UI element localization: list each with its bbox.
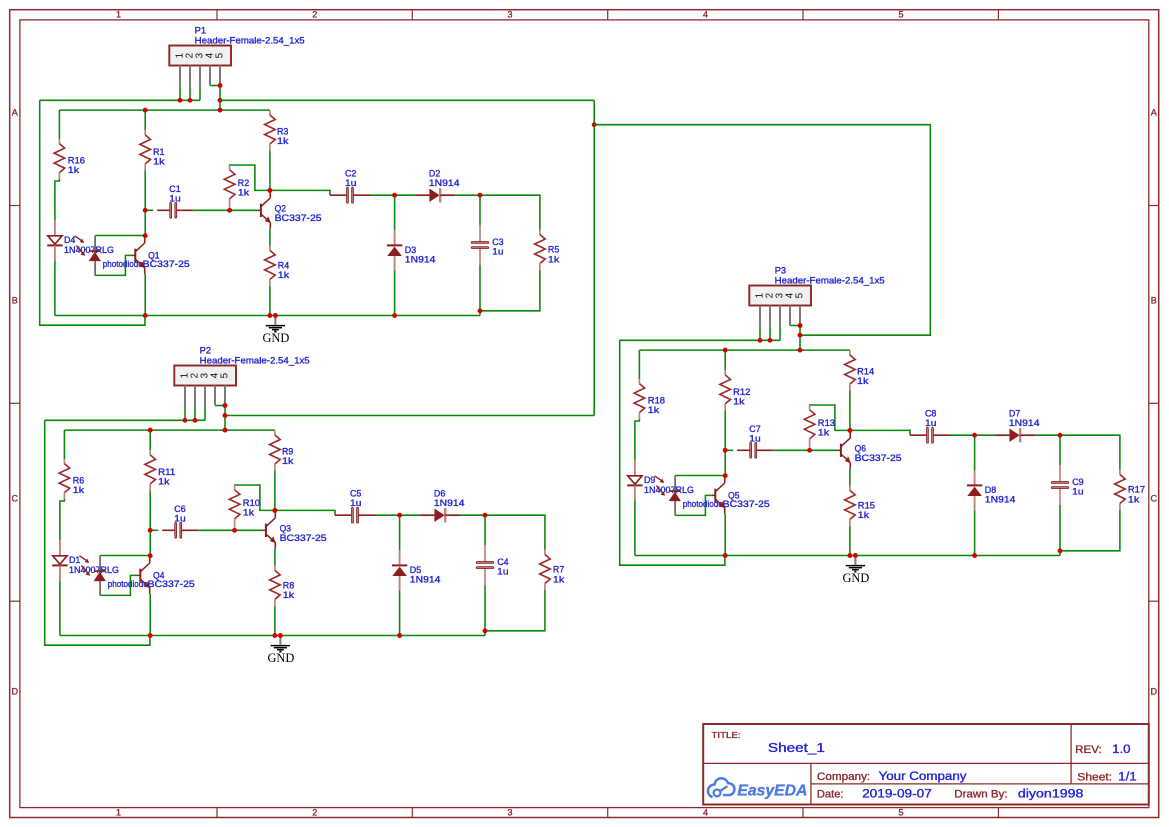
svg-text:C1: C1 xyxy=(169,184,180,194)
svg-text:R15: R15 xyxy=(858,500,875,510)
svg-text:1k: 1k xyxy=(68,165,80,175)
junction (145.2,210.3) xyxy=(143,208,148,213)
photodiode (opto receiver) xyxy=(80,556,106,596)
label R17 1k xyxy=(1128,485,1145,505)
wire: bus down left side xyxy=(593,100,595,415)
photodiode (opto receiver) xyxy=(75,236,101,276)
svg-text:1N4007RLG: 1N4007RLG xyxy=(69,565,119,575)
label D8 1N914 xyxy=(985,485,1016,504)
svg-text:R17: R17 xyxy=(1128,485,1145,495)
label Q4 BC337-25 xyxy=(148,571,195,589)
label Q5 BC337-25 xyxy=(723,491,770,509)
wire: C6 row xyxy=(150,529,262,531)
svg-text:D: D xyxy=(12,687,19,697)
wire: header P2 pins 1-3 to bus xyxy=(185,406,205,421)
svg-text:5: 5 xyxy=(898,808,903,818)
svg-text:R14: R14 xyxy=(857,367,874,377)
wire: net pins123 left/bottom loop xyxy=(45,420,150,645)
label photodiode xyxy=(108,579,148,589)
svg-text:1N4007RLG: 1N4007RLG xyxy=(64,245,114,255)
svg-text:TITLE:: TITLE: xyxy=(712,730,741,740)
wire: C1 row xyxy=(145,209,257,211)
wire: header P2 pin4 jumper xyxy=(215,405,225,407)
label C6 1u xyxy=(174,504,185,524)
wire: ground rail xyxy=(60,635,485,637)
svg-text:1k: 1k xyxy=(818,428,830,438)
junction (225,430.1) xyxy=(223,428,228,433)
title block xyxy=(703,724,1149,805)
wire: net pins123 top rail xyxy=(620,339,780,341)
label D5 1N914 xyxy=(410,565,441,584)
svg-text:BC337-25: BC337-25 xyxy=(275,213,322,223)
connector header P1 xyxy=(169,46,231,86)
label C7 1u xyxy=(749,424,760,444)
junction (274.9,510.4) xyxy=(272,508,277,513)
svg-text:1k: 1k xyxy=(648,405,660,415)
svg-text:1u: 1u xyxy=(492,247,503,257)
svg-text:Sheet_1: Sheet_1 xyxy=(768,740,825,755)
svg-text:1N914: 1N914 xyxy=(405,255,436,265)
svg-text:5: 5 xyxy=(215,52,226,58)
junction (225,405.5) xyxy=(223,403,228,408)
resistor R18 xyxy=(634,379,645,419)
label R1 1k xyxy=(153,147,165,167)
svg-text:Drawn By:: Drawn By: xyxy=(954,788,1007,800)
svg-text:C4: C4 xyxy=(497,557,508,567)
wire: bus to block3 pin5 xyxy=(594,125,930,336)
junction (150.2,555.7) xyxy=(148,553,153,558)
wire: C8 to D7 xyxy=(950,434,995,436)
svg-text:1: 1 xyxy=(116,10,121,20)
wire: header P3 pins 1-3 to bus xyxy=(760,326,780,341)
diode D8 xyxy=(967,470,982,510)
wire: R3 to collector xyxy=(269,150,271,190)
resistor R15 xyxy=(845,486,856,526)
wire: emitter to R15 xyxy=(849,469,851,556)
resistor R3 xyxy=(265,110,276,150)
junction (145.2,315.5) xyxy=(143,313,148,318)
svg-text:1k: 1k xyxy=(278,270,290,280)
label R11 1k xyxy=(158,467,175,487)
transistor Q1 xyxy=(132,236,146,274)
svg-text:2019-09-07: 2019-09-07 xyxy=(862,786,932,800)
ground symbol xyxy=(267,636,294,666)
capacitor C4 xyxy=(476,545,493,585)
wire: header P1 pins 1-3 to bus xyxy=(180,86,200,101)
label C4 1u xyxy=(497,557,508,577)
label P3 Header-Female-2.54_1x5 xyxy=(775,266,885,286)
svg-text:C9: C9 xyxy=(1072,477,1083,487)
svg-text:A: A xyxy=(1151,108,1157,118)
junction (485,630.8) xyxy=(483,628,488,633)
junction (974.6,435.2) xyxy=(972,433,977,438)
wire: R13 bend to collector xyxy=(810,405,850,450)
svg-text:1k: 1k xyxy=(282,456,294,466)
svg-text:BC337-25: BC337-25 xyxy=(723,499,770,509)
svg-text:Your Company: Your Company xyxy=(879,769,968,783)
label R7 1k xyxy=(553,565,565,585)
label C2 1u xyxy=(345,168,356,188)
wire: Q4 emitter drop xyxy=(149,594,151,636)
junction (809.6,450.3) xyxy=(807,448,812,453)
label R5 1k xyxy=(548,245,560,265)
svg-text:R13: R13 xyxy=(818,418,835,428)
junction (269.9,315.5) xyxy=(267,313,272,318)
svg-text:R2: R2 xyxy=(238,178,249,188)
capacitor C3 xyxy=(471,225,488,265)
wire: R10 bend to collector xyxy=(235,485,275,530)
junction (275.4,315.5) xyxy=(273,313,278,318)
svg-text:3: 3 xyxy=(507,808,512,818)
junction (185,420.3) xyxy=(183,418,188,423)
wire: R14 to collector xyxy=(849,390,851,430)
junction (849.9,555.5) xyxy=(847,553,852,558)
svg-text:BC337-25: BC337-25 xyxy=(148,579,195,589)
svg-text:C7: C7 xyxy=(749,424,760,434)
label R16 1k xyxy=(68,156,85,176)
svg-text:1k: 1k xyxy=(277,136,289,146)
label R3 1k xyxy=(277,127,289,147)
wire: bus to block2 pin5 xyxy=(225,415,594,417)
junction (485,515.2) xyxy=(483,513,488,518)
svg-text:1k: 1k xyxy=(1128,495,1140,505)
EasyEDA logo xyxy=(708,778,807,799)
wire: C9 column xyxy=(1059,435,1061,555)
diode D6 xyxy=(420,508,460,522)
svg-text:1u: 1u xyxy=(497,567,508,577)
resistor R7 xyxy=(540,550,551,590)
junction (480,195.2) xyxy=(478,193,483,198)
wire: block1 pin5 bus to right xyxy=(220,99,594,101)
svg-text:Header-Female-2.54_1x5: Header-Female-2.54_1x5 xyxy=(200,355,310,365)
svg-text:4: 4 xyxy=(703,808,708,818)
svg-text:GND: GND xyxy=(267,651,294,665)
svg-text:1u: 1u xyxy=(350,498,361,508)
junction (274.9,635.5) xyxy=(272,633,277,638)
capacitor C9 xyxy=(1051,465,1068,505)
svg-text:C2: C2 xyxy=(345,168,356,178)
wire: D3 column xyxy=(394,195,396,315)
wire: VCC rail (row2) xyxy=(59,109,270,111)
wire: R17 bottom branch xyxy=(1060,510,1120,551)
svg-text:D: D xyxy=(1150,687,1157,697)
svg-text:2: 2 xyxy=(312,808,317,818)
label R12 1k xyxy=(733,387,750,407)
junction (800,335.2) xyxy=(798,333,803,338)
svg-text:1: 1 xyxy=(116,808,121,818)
wire: Q1 emitter drop xyxy=(144,274,146,316)
wire: C7 row xyxy=(725,449,837,451)
junction (394.6,315.5) xyxy=(392,313,397,318)
junction (855.4,555.5) xyxy=(853,553,858,558)
resistor R17 xyxy=(1115,470,1126,510)
svg-text:2: 2 xyxy=(312,10,317,20)
junction (394.6,195.2) xyxy=(392,193,397,198)
svg-text:BC337-25: BC337-25 xyxy=(855,453,902,463)
wire: C3 column xyxy=(479,195,481,315)
svg-text:R3: R3 xyxy=(277,127,288,137)
svg-text:1N4007RLG: 1N4007RLG xyxy=(644,485,694,495)
junction (150.2,430.1) xyxy=(148,428,153,433)
diode D5 xyxy=(392,550,407,590)
svg-text:EasyEDA: EasyEDA xyxy=(737,782,807,799)
svg-text:4: 4 xyxy=(703,10,708,20)
svg-text:1k: 1k xyxy=(857,376,869,386)
wire: Q5 emitter drop xyxy=(724,514,726,556)
svg-text:1N914: 1N914 xyxy=(434,498,465,508)
svg-text:1N914: 1N914 xyxy=(985,495,1016,505)
wire: C4 column xyxy=(484,515,486,635)
label P2 Header-Female-2.54_1x5 xyxy=(200,346,310,366)
label C8 1u xyxy=(925,408,936,428)
label D4 1N4007RLG xyxy=(64,235,114,255)
svg-text:Q2: Q2 xyxy=(275,204,286,214)
svg-text:P2: P2 xyxy=(200,346,211,356)
svg-text:R1: R1 xyxy=(153,147,164,157)
wire: ground rail xyxy=(635,555,1060,557)
svg-text:diyon1998: diyon1998 xyxy=(1018,786,1084,800)
svg-text:1u: 1u xyxy=(174,514,185,524)
svg-text:GND: GND xyxy=(262,331,289,345)
wire: net pins123 top rail xyxy=(45,419,205,421)
label D2 1N914 xyxy=(429,168,460,188)
svg-text:1k: 1k xyxy=(158,476,170,486)
wire: R2 bend to collector xyxy=(230,165,270,210)
svg-text:Q6: Q6 xyxy=(855,444,866,454)
svg-text:1k: 1k xyxy=(153,156,165,166)
wire: R6 branch xyxy=(60,430,65,635)
transistor Q2 xyxy=(257,190,271,228)
wire: VCC rail (row2) xyxy=(639,349,850,351)
transistor Q4 xyxy=(137,556,151,594)
label photodiode xyxy=(683,499,723,509)
svg-text:1u: 1u xyxy=(925,418,936,428)
junction (800,350.1) xyxy=(798,348,803,353)
wire: VCC rail (row2) xyxy=(64,429,275,431)
junction (190,100.3) xyxy=(188,98,193,103)
label Q1 BC337-25 xyxy=(143,251,190,269)
label R10 1k xyxy=(243,498,260,518)
svg-text:1k: 1k xyxy=(733,396,745,406)
svg-text:C5: C5 xyxy=(350,488,361,498)
label R18 1k xyxy=(648,396,665,416)
svg-text:A: A xyxy=(12,108,18,118)
svg-text:BC337-25: BC337-25 xyxy=(143,259,190,269)
svg-text:Company:: Company: xyxy=(817,771,870,783)
resistor R11 xyxy=(145,450,156,490)
resistor R2 xyxy=(224,165,235,205)
junction (399.6,635.5) xyxy=(397,633,402,638)
label C5 1u xyxy=(350,488,361,508)
svg-text:1N914: 1N914 xyxy=(1009,418,1040,428)
wire: header P1 pin5 drop xyxy=(219,86,221,111)
resistor R6 xyxy=(59,459,70,499)
transistor Q3 xyxy=(262,510,276,548)
wire: R18 branch xyxy=(635,350,640,555)
junction (229.6,210.3) xyxy=(227,208,232,213)
wire: photodiode links xyxy=(100,556,150,596)
svg-text:1/1: 1/1 xyxy=(1118,770,1137,784)
junction (725.2,475.7) xyxy=(723,473,728,478)
wire: collector row to C5 xyxy=(275,510,335,515)
wire: emitter to R4 xyxy=(269,229,271,316)
wire: header P3 pin5 drop xyxy=(799,326,801,351)
diode D9 xyxy=(627,460,642,500)
junction (195,420.3) xyxy=(193,418,198,423)
capacitor C8 xyxy=(910,427,950,443)
diode D4 xyxy=(47,220,62,260)
transistor Q5 xyxy=(712,476,726,514)
wire: R12 column xyxy=(724,350,726,476)
label Q2 BC337-25 xyxy=(275,204,322,224)
svg-text:R12: R12 xyxy=(733,387,750,397)
transistor Q6 xyxy=(837,430,851,468)
svg-text:C3: C3 xyxy=(492,237,503,247)
svg-text:P1: P1 xyxy=(195,26,206,36)
junction (220,100.3) xyxy=(218,98,223,103)
svg-text:C6: C6 xyxy=(174,504,185,514)
label C9 1u xyxy=(1072,477,1083,497)
label P1 Header-Female-2.54_1x5 xyxy=(195,26,305,46)
wire: ground rail xyxy=(55,315,480,317)
svg-text:Sheet:: Sheet: xyxy=(1077,772,1112,784)
svg-text:Header-Female-2.54_1x5: Header-Female-2.54_1x5 xyxy=(775,275,885,285)
resistor R16 xyxy=(54,139,65,179)
svg-text:1u: 1u xyxy=(169,194,180,204)
junction (849.9,430.4) xyxy=(847,428,852,433)
svg-text:Q3: Q3 xyxy=(280,524,291,534)
diode D3 xyxy=(387,230,402,270)
svg-text:BC337-25: BC337-25 xyxy=(280,533,327,543)
wire: D5 column xyxy=(399,515,401,635)
svg-text:R6: R6 xyxy=(73,476,84,486)
label Q6 BC337-25 xyxy=(855,444,902,464)
wire: net pins123 left/bottom loop xyxy=(40,100,145,325)
svg-text:D7: D7 xyxy=(1009,408,1020,418)
wire: photodiode links xyxy=(95,236,145,276)
svg-text:R5: R5 xyxy=(548,245,559,255)
svg-text:1u: 1u xyxy=(749,434,760,444)
wire: R11 column xyxy=(149,430,151,556)
junction (770,340.3) xyxy=(768,338,773,343)
label D3 1N914 xyxy=(405,245,436,264)
capacitor C5 xyxy=(335,507,375,523)
svg-text:1.0: 1.0 xyxy=(1112,742,1131,756)
label C1 1u xyxy=(169,184,180,204)
svg-text:B: B xyxy=(12,296,18,306)
connector header P3 xyxy=(749,286,811,326)
svg-text:C8: C8 xyxy=(925,408,936,418)
junction (220,110.1) xyxy=(218,108,223,113)
svg-text:C: C xyxy=(1150,494,1157,504)
svg-text:1N914: 1N914 xyxy=(410,575,441,585)
label R13 1k xyxy=(818,418,835,438)
label D1 1N4007RLG xyxy=(69,555,119,575)
junction (1060,550.8) xyxy=(1058,548,1063,553)
wire: D6 to output xyxy=(460,515,545,550)
resistor R10 xyxy=(229,485,240,525)
svg-text:R18: R18 xyxy=(648,396,665,406)
wire: D7 to output xyxy=(1035,435,1120,470)
diode D1 xyxy=(52,540,67,580)
svg-text:R9: R9 xyxy=(282,447,293,457)
junction (974.6,555.5) xyxy=(972,553,977,558)
svg-text:R8: R8 xyxy=(283,580,294,590)
svg-text:1u: 1u xyxy=(1072,487,1083,497)
junction (150.2,530.3) xyxy=(148,528,153,533)
label D9 1N4007RLG xyxy=(644,475,694,495)
connector header P2 xyxy=(174,366,236,406)
wire: emitter to R8 xyxy=(274,549,276,636)
junction (399.6,515.2) xyxy=(397,513,402,518)
wire: C2 to D2 xyxy=(370,194,415,196)
wire: photodiode links xyxy=(675,476,725,516)
svg-text:R10: R10 xyxy=(243,498,260,508)
label R2 1k xyxy=(238,178,250,198)
label R15 1k xyxy=(858,500,875,520)
junction (269.9,190.4) xyxy=(267,188,272,193)
ground symbol xyxy=(262,316,289,346)
junction (480,310.8) xyxy=(478,308,483,313)
wire: header P1 pin4 jumper xyxy=(210,85,220,87)
resistor R4 xyxy=(265,246,276,286)
svg-text:1u: 1u xyxy=(345,178,356,188)
junction (1060,435.2) xyxy=(1058,433,1063,438)
label C3 1u xyxy=(492,237,503,257)
svg-text:1k: 1k xyxy=(283,590,295,600)
svg-text:D6: D6 xyxy=(434,488,445,498)
junction (150.2,635.5) xyxy=(148,633,153,638)
wire: R1 column xyxy=(144,110,146,236)
svg-text:1k: 1k xyxy=(553,575,565,585)
svg-text:D2: D2 xyxy=(429,168,440,178)
wire: collector row to C2 xyxy=(270,190,330,195)
resistor R14 xyxy=(845,350,856,390)
svg-text:R4: R4 xyxy=(278,260,289,270)
svg-text:1k: 1k xyxy=(548,255,560,265)
svg-text:Date:: Date: xyxy=(817,788,844,800)
diode D7 xyxy=(995,428,1035,442)
svg-text:C: C xyxy=(12,494,19,504)
junction (145.2,235.7) xyxy=(143,233,148,238)
svg-text:B: B xyxy=(1151,296,1157,306)
junction (594.2,124.7) xyxy=(592,122,597,127)
svg-text:D4: D4 xyxy=(64,235,75,245)
svg-text:R7: R7 xyxy=(553,565,564,575)
junction (234.6,530.3) xyxy=(232,528,237,533)
P1 pin numbers 1-5 xyxy=(175,52,226,58)
wire: net pins123 top rail xyxy=(40,99,200,101)
svg-text:1k: 1k xyxy=(858,510,870,520)
svg-text:1k: 1k xyxy=(73,485,85,495)
wire: net pins123 left/bottom loop xyxy=(620,340,725,565)
resistor R8 xyxy=(270,566,281,606)
label R8 1k xyxy=(283,580,295,600)
svg-text:1k: 1k xyxy=(238,188,250,198)
capacitor C2 xyxy=(330,187,370,203)
resistor R9 xyxy=(270,430,281,470)
label D6 1N914 xyxy=(434,488,465,508)
label R4 1k xyxy=(278,260,290,280)
label R6 1k xyxy=(73,476,85,496)
junction (145.2,110.1) xyxy=(143,108,148,113)
junction (800,325.5) xyxy=(798,323,803,328)
wire: C5 to D6 xyxy=(375,514,420,516)
svg-text:R11: R11 xyxy=(158,467,175,477)
resistor R5 xyxy=(535,230,546,270)
label Q3 BC337-25 xyxy=(280,524,327,544)
P3 pin numbers 1-5 xyxy=(755,292,806,298)
